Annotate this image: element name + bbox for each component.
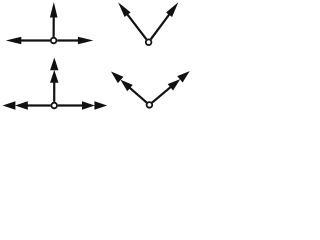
node D (147, 102, 153, 108)
vector C right (double) (58, 101, 107, 109)
vector D up-right (double) (152, 71, 190, 102)
vector D up-left (double) (111, 72, 147, 103)
node B (146, 39, 152, 45)
node C (51, 103, 57, 109)
vector C up (double) (50, 58, 58, 102)
vector C left (double) (3, 101, 51, 109)
vector A left (6, 37, 50, 45)
vector B up-right (151, 2, 179, 39)
vector A right (57, 37, 93, 45)
vector B up-left (118, 2, 146, 39)
vector A up (50, 2, 58, 37)
node A (51, 38, 57, 44)
